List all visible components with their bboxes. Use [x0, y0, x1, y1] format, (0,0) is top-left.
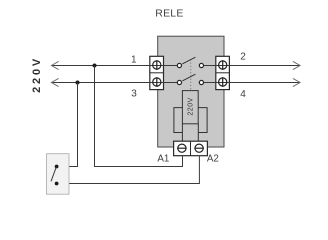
terminal block left divider — [150, 72, 164, 74]
terminal block right divider — [216, 72, 230, 74]
node J2 on neutral line — [76, 81, 80, 85]
contact K1b lever — [182, 74, 195, 81]
wire pin 2 output — [204, 65, 300, 67]
contact K1a left pole — [177, 63, 181, 67]
switch S1 lever — [51, 167, 56, 181]
arrow pin 4 output — [293, 78, 300, 86]
wire line N to contact pole 3 — [52, 82, 178, 84]
screw A2 — [195, 144, 203, 152]
arrow on line N — [51, 78, 58, 86]
svg-text:220V: 220V — [188, 97, 195, 115]
contact K1b left pole — [177, 80, 181, 84]
svg-text:2: 2 — [240, 52, 246, 63]
terminal block right (pins 2,4) — [216, 56, 230, 89]
screw pin 2 — [219, 61, 227, 69]
contact K1a right pole — [199, 63, 203, 67]
wire line L (phase) to contact pole 1 — [52, 65, 178, 67]
switch S1 bottom contact — [55, 182, 59, 186]
terminal block bottom divider — [190, 141, 192, 156]
coil L1 body — [182, 91, 198, 124]
switch S1 top contact — [55, 165, 59, 169]
terminal block bottom (A1,A2) — [174, 141, 208, 156]
svg-text:A1: A1 — [157, 153, 169, 164]
contact K1a lever — [182, 57, 195, 64]
coil leg to A2 — [197, 124, 199, 141]
relay U1 body — [158, 36, 224, 147]
screw pin 1 — [153, 61, 161, 69]
wire J2 down to switch S1 — [57, 83, 78, 167]
wire switch S1 to A2 — [57, 156, 200, 184]
terminal block left (pins 1,3) — [150, 56, 164, 89]
svg-text:4: 4 — [240, 89, 246, 100]
node J1 on phase line — [93, 64, 97, 68]
screw pin 4 — [219, 78, 227, 86]
svg-text:3: 3 — [131, 89, 137, 100]
screw A1 — [178, 144, 186, 152]
wire J1 down to A1 — [95, 66, 183, 167]
switch S1 box — [47, 154, 70, 195]
coil yoke left arm — [174, 108, 183, 133]
svg-text:RELE: RELE — [155, 7, 183, 19]
wire pin 4 output — [204, 82, 300, 84]
arrow pin 2 output — [293, 61, 300, 69]
svg-text:220V: 220V — [31, 56, 43, 93]
coil leg to A1 — [181, 124, 183, 141]
contact K1b right pole — [199, 80, 203, 84]
coil yoke right arm — [198, 108, 207, 133]
screw pin 3 — [153, 78, 161, 86]
svg-text:1: 1 — [131, 55, 137, 66]
linkage dashed line — [190, 59, 192, 90]
arrow on line L — [51, 61, 58, 69]
svg-text:A2: A2 — [207, 153, 219, 164]
